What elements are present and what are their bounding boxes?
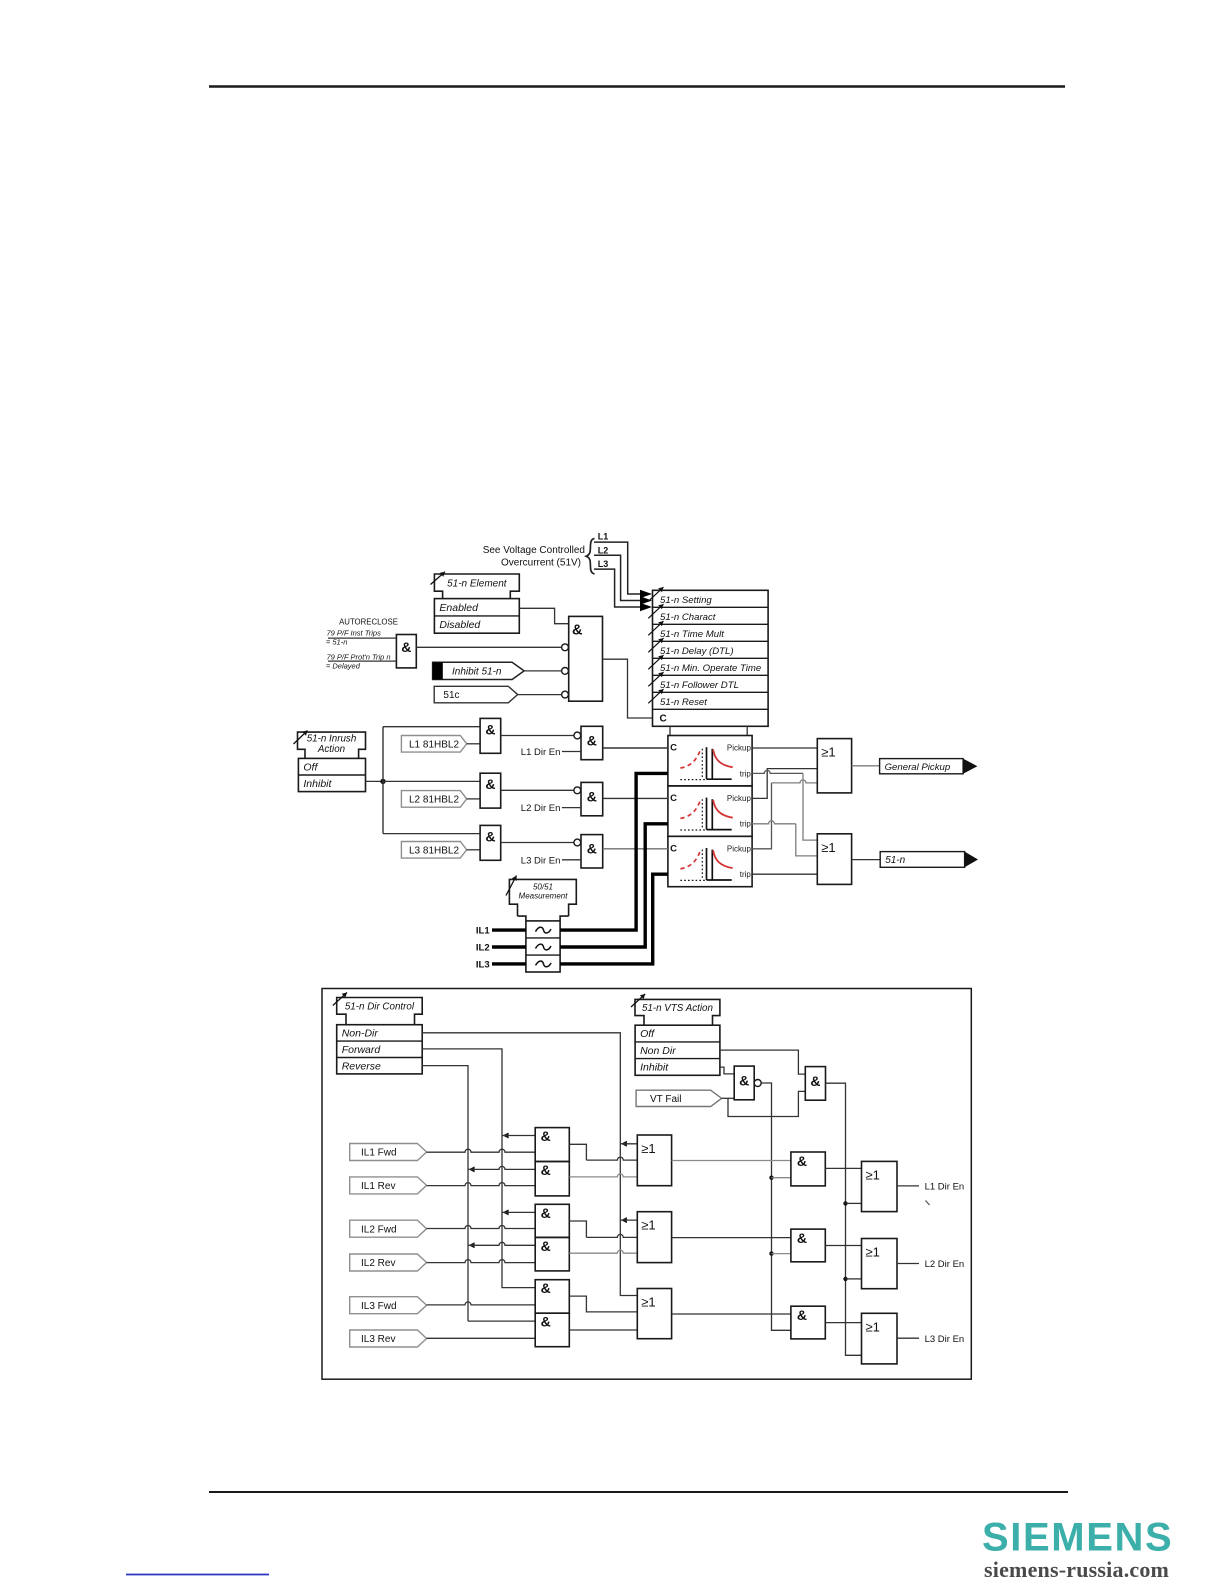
svg-text:51-n Delay (DTL): 51-n Delay (DTL) (660, 646, 734, 657)
options box Non-Dir/Forward/Reverse (337, 1025, 423, 1074)
tag IL3 Rev (350, 1330, 427, 1347)
arrow symbol 51-n Time Mult (648, 621, 663, 635)
svg-text:trip: trip (740, 870, 752, 879)
svg-text:≥1: ≥1 (641, 1218, 655, 1233)
wire IL3 to curve block L3 thick (560, 874, 668, 964)
svg-text:IL3 Fwd: IL3 Fwd (361, 1301, 397, 1312)
wire L3 81HBL2 to gate (467, 849, 480, 851)
svg-text:Measurement: Measurement (519, 892, 569, 901)
wire trip L2 to OR U7 (752, 821, 796, 824)
wire U9 bus to OR U17 (846, 1278, 862, 1280)
arrow symbol 51-n Element (431, 572, 446, 585)
and-gate U1 51-n enable (569, 616, 603, 701)
inverted output circle U8 (754, 1080, 761, 1087)
wire IL1 thick (492, 928, 526, 931)
svg-text:L1 81HBL2: L1 81HBL2 (409, 739, 459, 750)
or-gate U10 (637, 1135, 671, 1186)
wire Reverse bus (422, 1066, 468, 1322)
wire U8 output bus (761, 1083, 791, 1330)
wire VT Fail branch to gate U9 (728, 1091, 805, 1116)
svg-text:&: & (541, 1162, 551, 1178)
svg-text:&: & (401, 639, 411, 655)
junction arrow Forward to and L2 (503, 1209, 509, 1215)
wire IL2 thick (492, 945, 526, 948)
connector settings box to curve blocks (669, 726, 671, 735)
wire pickup L3 to OR U6 (752, 783, 771, 849)
svg-text:&: & (797, 1230, 807, 1246)
CT measurement block (526, 921, 560, 972)
svg-text:VT Fail: VT Fail (650, 1094, 682, 1105)
svg-text:siemens-russia.com: siemens-russia.com (984, 1557, 1169, 1582)
bottom rule (209, 1491, 1068, 1493)
inverted input circle U1 pin1 (562, 644, 569, 651)
wire gate to curve block C input L1 (603, 747, 668, 749)
wire inrush bus to gate U5 L3 (383, 833, 480, 835)
svg-text:&: & (485, 721, 495, 737)
wire U9 output bus (826, 1083, 862, 1355)
junction arrow Forward to and L1 (503, 1133, 509, 1139)
wire rev L1 to OR U10 (569, 1174, 637, 1177)
svg-text:L3 Dir En: L3 Dir En (925, 1334, 965, 1345)
wire U8 bus to and U13 (772, 1177, 791, 1179)
wire U17 output (897, 1263, 919, 1265)
wire IL1 to curve block L1 thick (560, 773, 668, 930)
svg-text:Disabled: Disabled (439, 619, 481, 631)
wire inrush bus to gate U4 L2 (383, 780, 480, 782)
svg-text:C: C (670, 793, 677, 804)
inverse-time curve block phase L1 (668, 736, 752, 786)
svg-text:&: & (541, 1314, 551, 1330)
svg-text:&: & (587, 841, 597, 857)
setting box 51-n Inrush Action (298, 732, 366, 758)
arrow symbol 51-n Reset (648, 689, 663, 703)
and-gate fwd L3 (535, 1280, 569, 1314)
svg-text:L3: L3 (598, 559, 609, 569)
output tag 51-n (880, 852, 964, 868)
svg-text:Forward: Forward (342, 1044, 382, 1056)
svg-text:Enabled: Enabled (439, 602, 479, 614)
wire IL1 Rev to and gate (427, 1183, 536, 1186)
wire L2 Dir En to gate (562, 807, 581, 809)
and-gate rev L3 (535, 1313, 569, 1347)
wire U11 to and U14 (672, 1237, 791, 1239)
output tag General Pickup (880, 759, 964, 774)
top rule (209, 85, 1065, 87)
svg-text:L1 Dir En: L1 Dir En (521, 747, 561, 758)
svg-text:SIEMENS: SIEMENS (982, 1516, 1173, 1560)
and-gate rev L1 (535, 1162, 569, 1196)
svg-text:Action: Action (317, 744, 345, 755)
svg-text:trip: trip (740, 820, 752, 829)
wire IL2 to curve block L2 thick (560, 824, 668, 947)
and-gate fwd L2 (535, 1204, 569, 1237)
svg-text:51-n Time Mult: 51-n Time Mult (660, 629, 724, 640)
svg-text:51-n Charact: 51-n Charact (660, 612, 716, 623)
svg-text:≥1: ≥1 (866, 1167, 880, 1182)
wire gate to inverted input L1 (501, 735, 574, 737)
svg-text:IL1: IL1 (476, 926, 490, 937)
setting box 51-n Dir Control (337, 998, 423, 1025)
svg-text:&: & (541, 1238, 551, 1254)
svg-text:≥1: ≥1 (821, 745, 835, 760)
wire fwd L3 to OR U12 (569, 1296, 637, 1312)
wire L3 Dir En to gate (562, 859, 581, 861)
arrow symbol 51-n Follower DTL (648, 672, 663, 686)
wire gate to inverted input L3 (501, 842, 574, 844)
svg-text:&: & (485, 776, 495, 792)
wire Forward bus (422, 1049, 535, 1288)
and-gate U9 VTS non-dir (805, 1067, 825, 1101)
and-gate inrush block L2 (480, 773, 501, 808)
and-gate fwd L1 (535, 1128, 569, 1162)
wire trip L3 to OR U7 (752, 873, 817, 875)
inverted input circle L3 (574, 839, 581, 846)
wire U7 to 51-n tag (852, 859, 881, 861)
svg-text:L3 Dir En: L3 Dir En (521, 855, 561, 866)
inverse-time curve block phase L3 (668, 836, 752, 886)
wire IL3 Rev to and gate (427, 1337, 536, 1339)
arrow symbol 51-n VTS Action (631, 994, 645, 1007)
svg-text:≥1: ≥1 (641, 1295, 655, 1310)
inverted input circle U1 pin3 (562, 691, 569, 698)
junction dot inrush bus (380, 779, 385, 784)
svg-text:Pickup: Pickup (727, 845, 752, 854)
settings list box 51-n (653, 590, 769, 726)
svg-text:51-n Element: 51-n Element (447, 579, 508, 590)
tag L2 81HBL2 (401, 791, 466, 808)
wire VTS Inhibit to NAND U8 (720, 1067, 734, 1074)
svg-text:Off: Off (303, 761, 318, 773)
svg-text:51-n Min. Operate Time: 51-n Min. Operate Time (660, 663, 761, 674)
wire gate to inverted input L2 (501, 789, 574, 791)
wire pickup L2 to OR U6 (752, 769, 817, 799)
svg-text:L2 81HBL2: L2 81HBL2 (409, 795, 459, 806)
svg-text:≥1: ≥1 (866, 1319, 880, 1334)
stray tick mark (926, 1201, 930, 1206)
svg-text:79 P/F Prot'n Trip n: 79 P/F Prot'n Trip n (327, 653, 391, 662)
tag 51c (434, 686, 518, 703)
junction arrow Non-Dir to OR U11 (621, 1217, 627, 1223)
junction dot U8 bus to U14 (769, 1251, 773, 1255)
svg-text:51-n: 51-n (885, 855, 905, 866)
and-gate inrush block L1 (480, 718, 501, 753)
svg-text:≥1: ≥1 (641, 1141, 655, 1156)
svg-text:IL1 Rev: IL1 Rev (361, 1181, 395, 1192)
wire pickup L1 to OR U6 (752, 747, 817, 749)
svg-text:IL1 Fwd: IL1 Fwd (361, 1148, 397, 1159)
arrow symbol 51-n Min. Operate Time (648, 655, 663, 669)
svg-text:&: & (572, 622, 583, 638)
svg-text:&: & (797, 1307, 807, 1323)
and-gate dir enable L1 (581, 726, 603, 759)
junction arrow Reverse to and L2 (469, 1242, 475, 1248)
svg-text:C: C (670, 743, 677, 754)
options box Off/Inhibit (298, 758, 365, 791)
wire Inhibit 51-n to U1 (524, 670, 561, 672)
junction arrow Reverse to and L1 (469, 1166, 475, 1172)
and-gate rev L2 (535, 1237, 569, 1271)
svg-text:= Delayed: = Delayed (326, 661, 361, 670)
or-gate U7 51-n trip (817, 834, 851, 885)
wire 79 P/F Prot'n Trip to gate U2 (328, 660, 396, 662)
wire L3 to settings input (594, 569, 640, 607)
wire U6 to General Pickup tag (852, 765, 880, 767)
tag IL1 Rev (350, 1177, 427, 1194)
nand-gate U8 VTS inhibit (734, 1066, 754, 1100)
options box Off/Non Dir/Inhibit (635, 1025, 720, 1075)
setting box 51-n Element (434, 574, 519, 599)
CT element squiggle 3 (536, 961, 552, 967)
svg-text:Pickup: Pickup (727, 794, 752, 803)
wire L2 81HBL2 to gate (467, 798, 480, 800)
tag IL2 Fwd (350, 1220, 427, 1237)
svg-text:IL3 Rev: IL3 Rev (361, 1334, 395, 1345)
setting box 50/51 Measurement (509, 879, 576, 916)
svg-text:&: & (541, 1280, 551, 1296)
CT element squiggle 1 (536, 927, 552, 933)
wire gate to curve block C input L2 (603, 797, 668, 799)
or-gate U18 (862, 1313, 898, 1364)
svg-text:&: & (587, 788, 597, 804)
and-gate U14 (791, 1229, 825, 1262)
and-gate U13 (791, 1152, 825, 1186)
svg-text:Overcurrent (51V): Overcurrent (51V) (501, 558, 581, 569)
wire IL2 Rev to and gate (427, 1260, 536, 1263)
junction arrow Non-Dir to OR U10 (621, 1141, 627, 1147)
svg-text:51c: 51c (443, 690, 459, 701)
arrow symbol 51-n Setting (648, 587, 663, 601)
wire Enabled to gate U1 (519, 608, 568, 623)
wire trip L1 to OR U7 (752, 770, 803, 773)
svg-text:50/51: 50/51 (533, 883, 553, 892)
wire inrush bus to gate U3 L1 (383, 726, 480, 728)
svg-text:IL2: IL2 (476, 943, 490, 954)
wire L1 to settings input (594, 542, 640, 594)
svg-text:Reverse: Reverse (342, 1060, 381, 1072)
svg-text:trip: trip (740, 769, 752, 778)
wire U1 output to settings C input (603, 659, 653, 718)
inverted input circle L2 (574, 787, 581, 794)
wire U9 bus to OR U16 (846, 1202, 862, 1204)
svg-text:51-n Follower DTL: 51-n Follower DTL (660, 680, 739, 691)
svg-text:IL2 Rev: IL2 Rev (361, 1258, 395, 1269)
and-gate U2 autoreclose (396, 635, 416, 668)
wire Non-Dir bus (422, 1033, 637, 1296)
arrowhead L2 input (640, 596, 652, 604)
arrow symbol 51-n Delay (DTL) (648, 638, 663, 652)
wire fwd L1 to OR U10 (569, 1144, 586, 1160)
wire 51c to U1 (518, 694, 562, 696)
junction dot U8 bus to U13 (769, 1176, 773, 1180)
junction dot U9 bus to OR U17 (843, 1277, 847, 1281)
svg-text:&: & (541, 1128, 551, 1144)
junction dot U9 bus to OR U16 (843, 1201, 847, 1205)
tag VT Fail (636, 1090, 722, 1106)
arrow symbol 51-n Charact (648, 604, 663, 618)
inverted input circle U1 pin2 (562, 668, 569, 675)
svg-text:&: & (739, 1073, 749, 1089)
wire U13 to OR U16 (825, 1167, 861, 1169)
tag IL3 Fwd (350, 1297, 427, 1314)
svg-text:51-n VTS Action: 51-n VTS Action (642, 1003, 713, 1014)
wire L1 Dir En to gate (562, 751, 581, 753)
svg-text:Inhibit: Inhibit (303, 778, 332, 790)
svg-text:Inhibit: Inhibit (640, 1062, 669, 1074)
wire IL2 Fwd to and gate (427, 1226, 536, 1229)
svg-text:&: & (587, 732, 597, 748)
inverse-time curve block phase L2 (668, 786, 752, 836)
wire Inhibit to inrush bus (366, 780, 384, 782)
and-gate dir enable L2 (581, 782, 603, 815)
svg-text:C: C (660, 714, 667, 725)
svg-text:IL3: IL3 (476, 959, 490, 970)
svg-text:51-n Reset: 51-n Reset (660, 697, 707, 708)
arrow symbol 51-n Inrush Action (294, 731, 308, 745)
svg-text:General Pickup: General Pickup (885, 762, 951, 773)
and-gate dir enable L3 (581, 835, 603, 868)
options box Enabled/Disabled (434, 599, 519, 634)
arrowhead L3 input (640, 603, 652, 611)
wire rev L3 to OR U12 (569, 1329, 637, 1331)
wire Reverse to and L3 (468, 1320, 535, 1322)
wire U15 to OR U18 (825, 1322, 861, 1324)
and-gate inrush block L3 (480, 825, 501, 860)
svg-text:L3 81HBL2: L3 81HBL2 (409, 845, 459, 856)
inverted input circle L1 (574, 732, 581, 739)
or-gate U11 (637, 1212, 671, 1263)
or-gate U16 (862, 1161, 898, 1211)
svg-text:L2 Dir En: L2 Dir En (521, 803, 561, 814)
svg-text:51-n Dir Control: 51-n Dir Control (345, 1002, 415, 1013)
wire L1 81HBL2 to gate (467, 743, 480, 745)
arrow symbol 51-n Dir Control (333, 993, 347, 1006)
wire IL3 Fwd to and gate (427, 1302, 536, 1305)
svg-text:≥1: ≥1 (866, 1245, 880, 1260)
svg-text:IL2 Fwd: IL2 Fwd (361, 1224, 397, 1235)
wire 79 P/F Inst Trips to gate U2 (328, 637, 396, 639)
svg-text:&: & (541, 1205, 551, 1221)
svg-text:Non Dir: Non Dir (640, 1045, 676, 1057)
or-gate U17 (862, 1239, 898, 1289)
CT element squiggle 2 (536, 944, 552, 950)
wire U18 output (897, 1337, 919, 1339)
wire U2 output to U1 inverted input (416, 646, 561, 648)
svg-text:C: C (670, 844, 677, 855)
svg-text:51-n Setting: 51-n Setting (660, 595, 712, 606)
svg-text:Inhibit 51-n: Inhibit 51-n (452, 667, 502, 678)
svg-text:See Voltage Controlled: See Voltage Controlled (483, 545, 585, 556)
wire VTS Non Dir to gate U9 (720, 1050, 805, 1074)
tag Inhibit 51-n (433, 662, 524, 679)
svg-text:79 P/F Inst Trips: 79 P/F Inst Trips (327, 628, 382, 637)
svg-text:L1 Dir En: L1 Dir En (925, 1182, 965, 1193)
wire U12 to and U15 (672, 1313, 791, 1315)
or-gate U12 (637, 1289, 671, 1339)
svg-text:L2: L2 (598, 545, 609, 555)
wire U8 bus to and U14 (772, 1253, 791, 1255)
svg-text:&: & (797, 1153, 807, 1169)
svg-text:L1: L1 (598, 532, 609, 542)
svg-text:Non-Dir: Non-Dir (342, 1028, 379, 1040)
svg-text:L2 Dir En: L2 Dir En (925, 1259, 965, 1270)
svg-text:&: & (810, 1073, 820, 1089)
tag L1 81HBL2 (401, 736, 466, 753)
svg-text:AUTORECLOSE: AUTORECLOSE (339, 618, 398, 627)
connector measurement to CT block (518, 916, 569, 921)
setting box 51-n VTS Action (635, 999, 720, 1025)
arrowhead L1 input (640, 590, 652, 598)
tag L3 81HBL2 (401, 842, 466, 859)
wire VT Fail to NAND U8 (722, 1097, 735, 1099)
wire IL1 Fwd to and gate (427, 1149, 536, 1152)
wire U16 output (897, 1185, 919, 1187)
wire U14 to OR U17 (825, 1245, 861, 1247)
wire rev L2 to OR U11 (569, 1250, 637, 1253)
wire L2 to settings input (594, 555, 640, 600)
tag IL1 Fwd (350, 1144, 427, 1161)
wire U10 to and U13 (672, 1160, 791, 1162)
tag IL2 Rev (350, 1254, 427, 1271)
arrow symbol 50/51 Measurement (506, 876, 517, 896)
inrush bus vertical (382, 727, 384, 834)
section border box (322, 989, 971, 1380)
wire gate to curve block C input L3 (603, 848, 668, 850)
svg-text:&: & (485, 828, 495, 844)
and-gate U15 (791, 1306, 825, 1339)
svg-text:Pickup: Pickup (727, 744, 752, 753)
svg-text:≥1: ≥1 (821, 840, 835, 855)
svg-text:Off: Off (640, 1028, 655, 1040)
or-gate U6 general pickup (817, 739, 851, 793)
wire IL3 thick (492, 962, 526, 965)
wire fwd L2 to OR U11 (569, 1221, 586, 1237)
link underline (126, 1574, 269, 1576)
brace for L1 L2 L3 (586, 539, 594, 574)
